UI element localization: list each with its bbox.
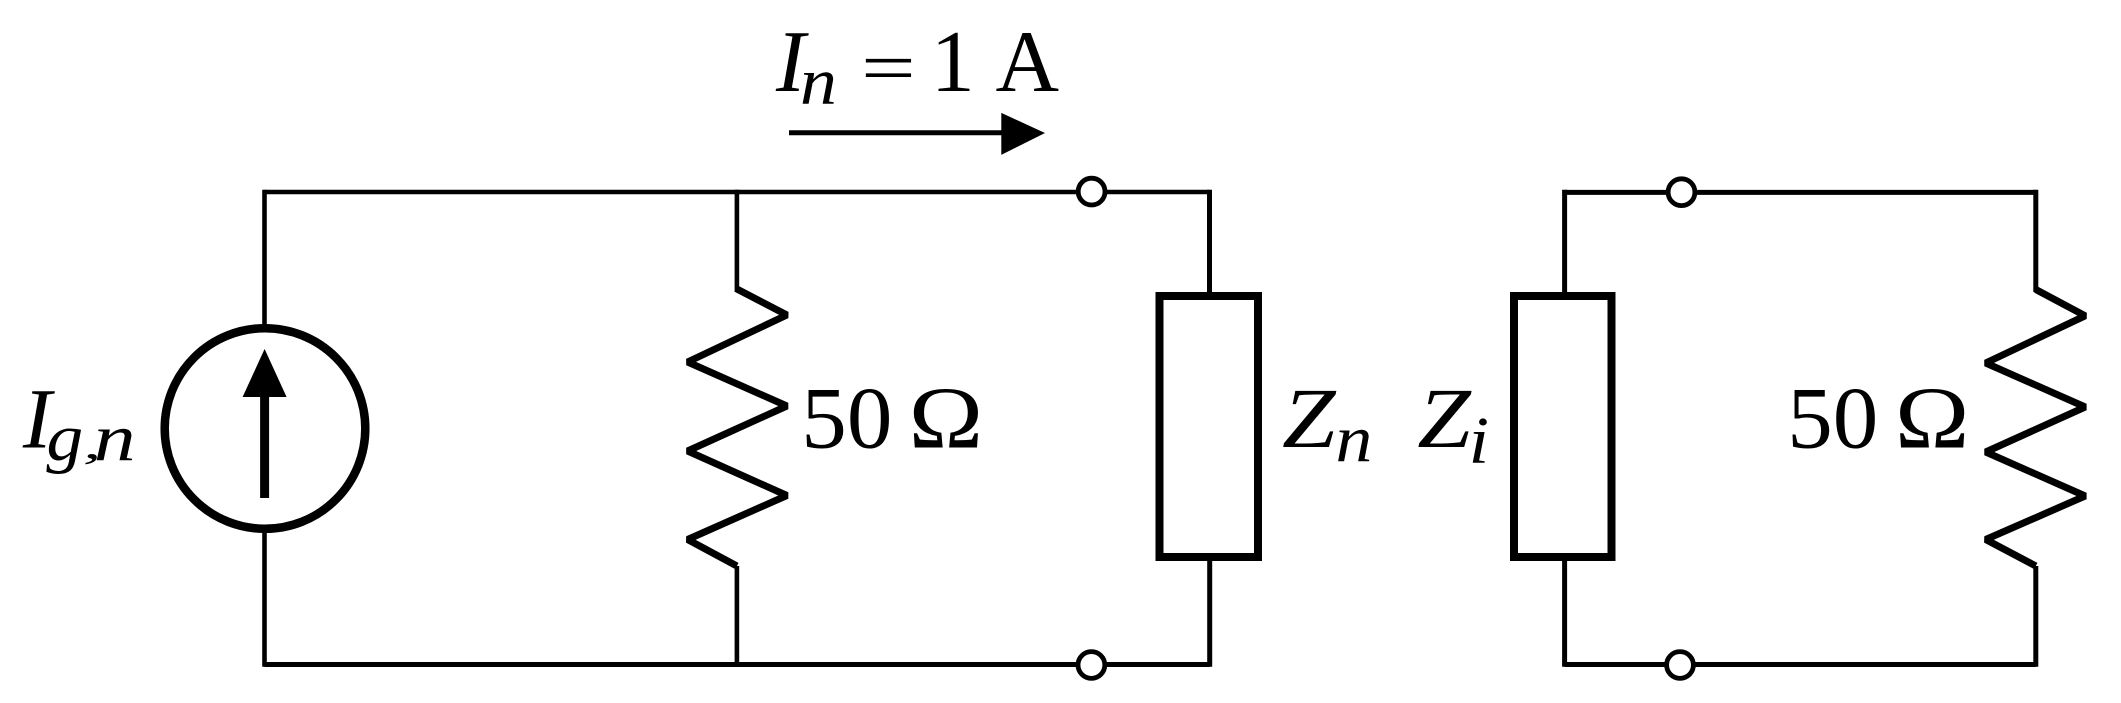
svg-text:Ω: Ω [1895,370,1970,467]
resistor R 50Ω (right, zigzag) [1986,290,2086,567]
wire: right resistor lower vertical [2033,566,2038,667]
impedance Zn box [1160,296,1259,557]
wire: resistor branch upper [735,190,740,292]
node: terminal, right circuit top [1668,179,1695,206]
node: terminal, left circuit bottom [1078,652,1105,679]
label 50 Ω (left) [801,370,983,467]
current direction arrow In [789,113,1045,155]
svg-text:A: A [996,14,1060,111]
svg-text:1: 1 [931,14,975,111]
wire: right circuit top horizontal [1565,190,2036,195]
svg-text:50: 50 [1787,370,1878,467]
node: terminal, left circuit top [1078,178,1105,205]
svg-text:Z: Z [1417,371,1472,466]
wire: left circuit top horizontal [265,190,1210,194]
svg-text:g: g [46,401,83,475]
wire: right resistor upper vertical [2033,190,2038,292]
label Ig,n [22,371,136,476]
wire: Zn branch lower vertical [1207,557,1212,667]
current source Ig,n [165,328,366,529]
label In = 1 A [775,14,1059,119]
svg-text:i: i [1469,404,1489,478]
svg-text:=: = [861,27,916,109]
node: terminal, right circuit bottom [1667,652,1694,679]
label 50 Ω (right) [1787,370,1969,467]
svg-text:Ω: Ω [909,370,984,467]
current source arrow (upward) [243,349,287,498]
wire: Zi branch upper vertical [1562,190,1567,296]
svg-text:n: n [1336,402,1373,476]
wire: Zn branch upper vertical [1207,190,1212,296]
svg-text:n: n [800,45,837,119]
label Zi [1417,371,1489,478]
wire: resistor branch lower [735,566,740,667]
wire: Zi branch lower vertical [1562,557,1567,667]
wire: left circuit left vertical (top of source) [262,190,267,330]
svg-text:Z: Z [1282,371,1337,466]
wire: left circuit bottom of source vertical [262,527,267,667]
wire: right circuit bottom horizontal [1565,662,2036,667]
impedance Zi box [1514,296,1612,557]
wire: left circuit bottom horizontal [265,662,1210,667]
resistor R 50Ω (left, zigzag) [688,289,787,566]
svg-text:n: n [94,401,136,475]
label Zn [1282,371,1372,477]
svg-text:50: 50 [801,370,892,467]
